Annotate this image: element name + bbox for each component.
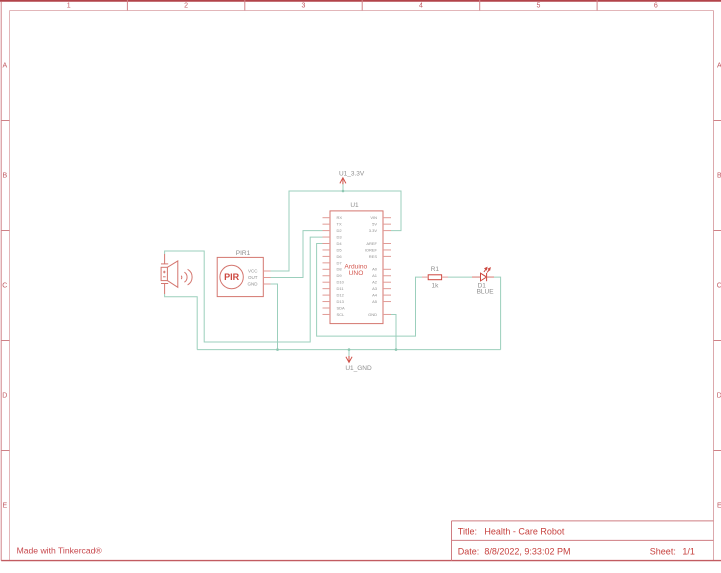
svg-text:D9: D9 <box>337 273 343 278</box>
svg-text:1/1: 1/1 <box>682 547 695 557</box>
svg-text:GND: GND <box>368 312 377 317</box>
svg-text:D2: D2 <box>337 228 343 233</box>
svg-text:A: A <box>2 63 7 70</box>
svg-text:3.3V: 3.3V <box>369 228 378 233</box>
svg-text:VCC: VCC <box>248 269 258 274</box>
svg-text:5V: 5V <box>372 222 377 227</box>
svg-text:UNO: UNO <box>349 270 364 277</box>
svg-text:1k: 1k <box>431 283 439 290</box>
svg-text:A0: A0 <box>372 267 378 272</box>
svg-text:A5: A5 <box>372 299 378 304</box>
svg-text:RES: RES <box>369 254 378 259</box>
svg-text:VIN: VIN <box>370 215 377 220</box>
svg-text:D3: D3 <box>337 234 343 239</box>
svg-text:U1: U1 <box>350 202 359 209</box>
svg-text:D6: D6 <box>337 254 343 259</box>
svg-text:B: B <box>2 173 7 180</box>
svg-text:D7: D7 <box>337 260 343 265</box>
svg-text:E: E <box>717 503 721 510</box>
svg-text:U1_GND: U1_GND <box>345 365 372 372</box>
svg-text:D: D <box>717 393 721 400</box>
svg-text:U1_3.3V: U1_3.3V <box>339 170 365 177</box>
svg-text:D12: D12 <box>337 293 345 298</box>
svg-text:D4: D4 <box>337 241 343 246</box>
svg-text:GND: GND <box>248 282 259 287</box>
svg-text:D11: D11 <box>337 286 345 291</box>
svg-text:A2: A2 <box>372 280 378 285</box>
svg-text:OUT: OUT <box>248 275 258 280</box>
svg-text:C: C <box>2 283 7 290</box>
svg-text:A3: A3 <box>372 286 378 291</box>
svg-text:Title:: Title: <box>458 527 477 537</box>
svg-text:IOREF: IOREF <box>365 247 378 252</box>
svg-text:D13: D13 <box>337 299 345 304</box>
svg-text:RX: RX <box>337 215 343 220</box>
svg-text:5: 5 <box>536 2 540 9</box>
svg-text:A4: A4 <box>372 293 378 298</box>
svg-text:B: B <box>717 173 721 180</box>
svg-text:Made with Tinkercad®: Made with Tinkercad® <box>17 546 103 556</box>
svg-text:E: E <box>2 503 7 510</box>
svg-text:Sheet:: Sheet: <box>650 547 676 557</box>
svg-text:D10: D10 <box>337 280 345 285</box>
svg-text:AREF: AREF <box>366 241 377 246</box>
svg-text:8/8/2022, 9:33:02 PM: 8/8/2022, 9:33:02 PM <box>484 547 570 557</box>
svg-text:C: C <box>717 283 721 290</box>
svg-text:SCL: SCL <box>337 312 346 317</box>
svg-text:4: 4 <box>419 2 423 9</box>
svg-text:R1: R1 <box>431 266 440 273</box>
svg-text:PIR1: PIR1 <box>236 250 251 257</box>
svg-text:SDA: SDA <box>337 305 346 310</box>
svg-text:TX: TX <box>337 222 342 227</box>
svg-text:6: 6 <box>654 2 658 9</box>
svg-text:2: 2 <box>184 2 188 9</box>
svg-text:3: 3 <box>302 2 306 9</box>
svg-text:A: A <box>717 63 721 70</box>
svg-text:PIR: PIR <box>224 272 240 282</box>
svg-text:D: D <box>2 393 7 400</box>
svg-text:A1: A1 <box>372 273 378 278</box>
svg-text:D8: D8 <box>337 267 343 272</box>
svg-text:D5: D5 <box>337 247 343 252</box>
svg-text:1: 1 <box>67 2 71 9</box>
svg-text:Health - Care Robot: Health - Care Robot <box>484 527 565 537</box>
svg-text:BLUE: BLUE <box>477 289 495 296</box>
svg-text:Date:: Date: <box>458 547 480 557</box>
